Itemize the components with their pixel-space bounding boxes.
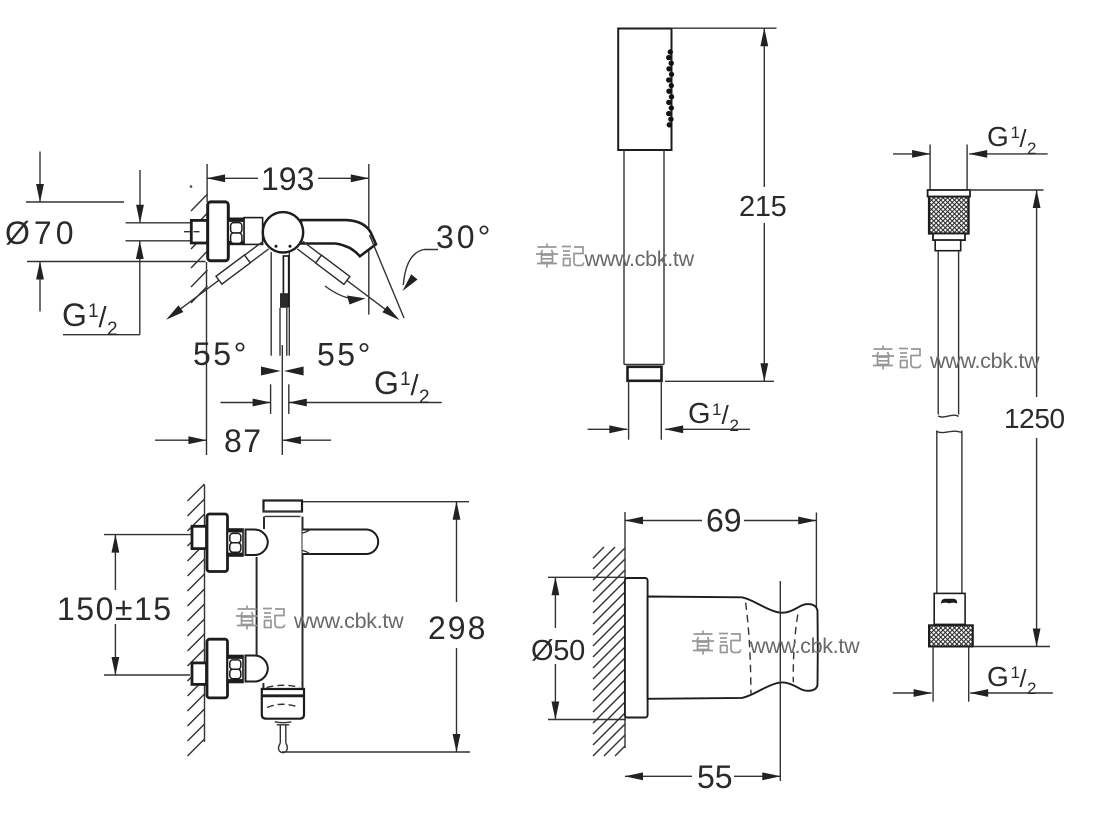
- hose G1/2 top dim right arrow: [969, 153, 1047, 155]
- bottom escutcheon: [207, 639, 228, 698]
- top hex nut side: [228, 529, 244, 556]
- holder escutcheon: [625, 578, 648, 718]
- wall stub (threaded inlet): [191, 220, 207, 243]
- holder hidden dashed contour left: [746, 603, 751, 694]
- hose G1/2 bottom dim left arrow: [893, 692, 932, 694]
- svg-text:G: G: [688, 398, 710, 430]
- svg-text:69: 69: [706, 503, 742, 539]
- stray dot: [190, 185, 193, 188]
- dim Ø50 bottom extension: [548, 719, 626, 721]
- knob (handle ball): [263, 212, 303, 252]
- G1/2 leader underline: [63, 334, 140, 336]
- svg-text:2: 2: [107, 319, 118, 340]
- svg-text:2: 2: [1027, 139, 1036, 158]
- holder wall line: [624, 512, 626, 748]
- spout top view: [301, 220, 376, 256]
- svg-text:2: 2: [419, 387, 430, 408]
- holder hidden dashed contour right: [793, 615, 798, 683]
- dim Ø70 top extension line: [26, 201, 124, 203]
- hex nut top view: [228, 218, 244, 244]
- wall hatching side view: [188, 484, 205, 756]
- svg-text:1250: 1250: [1004, 403, 1065, 434]
- aerator: [262, 689, 304, 719]
- dim Ø50 top arrow: [554, 577, 556, 628]
- watermark holder: [692, 631, 860, 659]
- top stub pipe: [929, 145, 931, 191]
- converging small arrows at handle: [261, 367, 281, 376]
- dim 1250 top extension: [967, 189, 1043, 191]
- stub centerline dashes: [184, 231, 203, 233]
- svg-text:www.cbk.tw: www.cbk.tw: [749, 634, 860, 658]
- top ball joint: [246, 529, 268, 555]
- main body: [257, 517, 303, 692]
- top wall stub: [192, 526, 207, 548]
- extension line wall lower: [206, 262, 208, 455]
- svg-text:150±15: 150±15: [57, 591, 173, 627]
- shower inlet pipe: [628, 381, 630, 440]
- svg-text:/: /: [722, 400, 730, 430]
- svg-text:/: /: [1020, 125, 1027, 153]
- handle stub below knob: [271, 252, 289, 356]
- dim 87 right arrow: [283, 439, 331, 441]
- dim 150±15 top extension: [104, 534, 192, 536]
- dim 1250 bottom extension: [973, 646, 1050, 648]
- dim Ø70 bottom extension line: [27, 261, 206, 263]
- G1/2 thread dim arrows: [221, 402, 271, 404]
- wall hatching top view: [191, 194, 208, 303]
- svg-text:215: 215: [739, 191, 787, 223]
- phantom handle swung left 55°: [163, 241, 269, 323]
- dim Ø50 bottom arrow: [554, 664, 556, 720]
- shower head body: [618, 29, 671, 151]
- watermark shower: [536, 244, 695, 272]
- spray nozzle dots: [666, 49, 674, 127]
- svg-text:1: 1: [712, 400, 721, 419]
- dim 298 top arrow: [456, 502, 458, 602]
- svg-text:55°: 55°: [317, 337, 373, 373]
- svg-text:2: 2: [730, 416, 739, 435]
- svg-text:1: 1: [400, 369, 411, 390]
- knob dots: [275, 245, 278, 248]
- shower inlet nut: [628, 367, 662, 381]
- svg-text:1: 1: [88, 301, 99, 322]
- valve body top view: [244, 218, 263, 245]
- shower G1/2 dim left arrow: [588, 428, 628, 430]
- svg-text:55°: 55°: [193, 336, 249, 372]
- label G1/2 second: [374, 365, 430, 408]
- dim Ø70 top arrow: [39, 152, 41, 203]
- wall line: [204, 485, 206, 742]
- svg-text:55: 55: [697, 759, 733, 795]
- extension line spout end: [368, 164, 370, 315]
- drip outlet: [277, 725, 289, 753]
- svg-text:Ø70: Ø70: [5, 215, 77, 251]
- supply pipe lines: [126, 222, 192, 224]
- holder body: [648, 597, 818, 699]
- dim 150±15 bottom arrow: [114, 624, 116, 675]
- hose lower segment: [936, 431, 938, 594]
- bottom stub pipe: [932, 647, 934, 702]
- svg-text:Ø50: Ø50: [531, 635, 585, 667]
- dim 193 line right: [318, 177, 369, 179]
- label G1/2 first: [62, 297, 118, 340]
- lever handle side view: [303, 530, 379, 555]
- svg-text:2: 2: [1027, 679, 1036, 698]
- svg-text:www.cbk.tw: www.cbk.tw: [929, 349, 1040, 373]
- bottom knurled nut: [929, 625, 973, 646]
- dim 215 bottom extension: [665, 380, 774, 382]
- dim 150±15 top arrow: [114, 535, 116, 590]
- svg-text:193: 193: [261, 161, 314, 197]
- top collar: [935, 240, 961, 251]
- svg-text:G: G: [374, 365, 399, 401]
- dim 215 bottom arrow: [763, 223, 765, 381]
- dim 69 line left: [625, 520, 702, 522]
- spout axis line: [370, 235, 405, 318]
- shower handle lines: [623, 150, 625, 364]
- svg-text:/: /: [1020, 665, 1027, 693]
- bottom hex nut side: [228, 656, 244, 683]
- hose upper segment: [937, 251, 939, 415]
- dim 69 line right: [744, 520, 816, 522]
- svg-text:30°: 30°: [436, 219, 493, 255]
- label G1/2 hose bottom: [987, 661, 1036, 698]
- phantom handle swung right 55°: [297, 241, 402, 324]
- watermark side view: [236, 606, 404, 634]
- dim 215 top extension: [672, 27, 777, 29]
- svg-text:www.cbk.tw: www.cbk.tw: [584, 247, 695, 271]
- dim 1250 bottom arrow: [1036, 438, 1038, 647]
- dim 150±15 bottom extension: [104, 674, 190, 676]
- bottom collar: [934, 593, 965, 624]
- outlet mouth: [275, 721, 292, 724]
- top escutcheon: [207, 514, 228, 572]
- svg-text:G: G: [62, 297, 87, 333]
- holder wall hatching: [593, 547, 625, 756]
- top knurled nut: [928, 190, 970, 240]
- G1/2 leader arrow up: [139, 241, 141, 335]
- G1/2 thread dim ext lines: [270, 384, 272, 414]
- svg-text:298: 298: [428, 610, 487, 646]
- dim 193 line left: [207, 177, 258, 179]
- handle bottom step: [624, 363, 664, 365]
- logo mark on collar: [941, 599, 957, 604]
- top cap: [264, 501, 303, 512]
- svg-text:87: 87: [224, 423, 263, 459]
- extension line wall: [206, 164, 208, 202]
- dim 215 top arrow: [763, 28, 765, 187]
- dim 87 left arrow: [155, 439, 206, 441]
- dim 55 line right: [734, 775, 780, 777]
- dim 1250 top arrow: [1036, 190, 1038, 397]
- shower G1/2 dim right arrow: [665, 428, 750, 430]
- hose G1/2 bottom dim right arrow: [970, 692, 1053, 694]
- dim 298 bottom arrow: [456, 648, 458, 752]
- wall escutcheon plate top view: [208, 202, 229, 261]
- dim Ø70 bottom arrow: [39, 262, 41, 312]
- pipe dia upper arrow: [139, 170, 141, 223]
- hose G1/2 top dim left arrow: [893, 153, 930, 155]
- handle centerline: [281, 345, 283, 455]
- baseline under drip: [282, 751, 470, 753]
- bottom wall stub: [192, 663, 207, 685]
- svg-text:G: G: [987, 661, 1008, 692]
- dim 55 extension line through holder: [779, 581, 781, 781]
- svg-text:G: G: [987, 121, 1008, 152]
- dim 55 line left: [625, 775, 692, 777]
- bottom ball joint: [246, 655, 268, 681]
- label G1/2 shower: [688, 398, 739, 435]
- 30° leader: [403, 250, 438, 286]
- watermark hose: [872, 346, 1040, 374]
- rotation arc arrow right: [325, 286, 362, 299]
- dim 69 right extension: [815, 513, 817, 608]
- dim Ø50 top extension: [548, 576, 626, 578]
- svg-text:www.cbk.tw: www.cbk.tw: [293, 609, 404, 633]
- dim 298 top extension: [303, 501, 469, 503]
- label G1/2 hose top: [987, 121, 1036, 158]
